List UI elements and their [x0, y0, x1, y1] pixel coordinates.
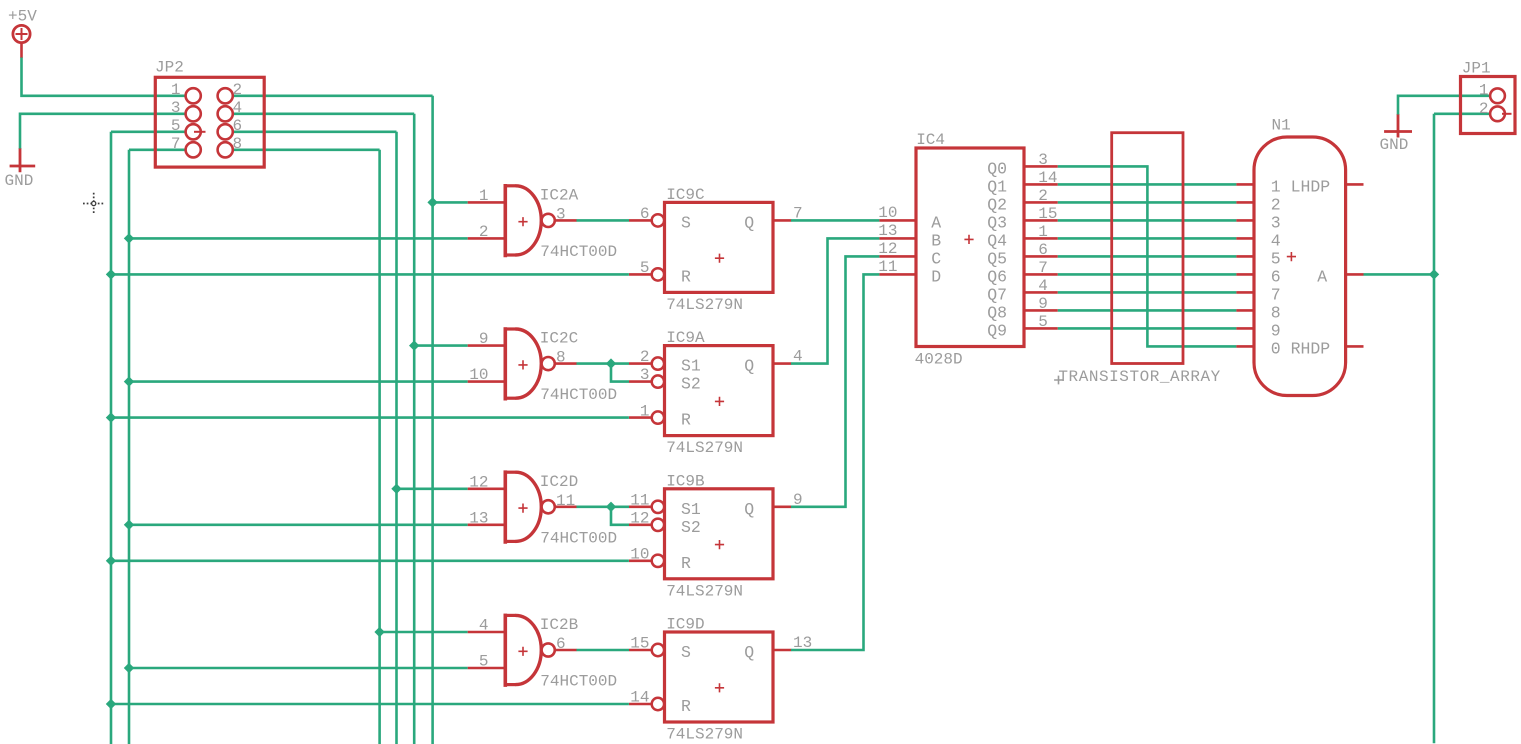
svg-text:0 RHDP: 0 RHDP — [1271, 339, 1331, 358]
svg-text:74HCT00D: 74HCT00D — [540, 243, 617, 261]
svg-text:S: S — [681, 213, 691, 232]
svg-text:2: 2 — [479, 223, 489, 241]
pin stub 8 — [1236, 309, 1254, 312]
wire JP2 pin3 to GND — [20, 114, 186, 149]
wire vertical net at x=1434 — [1433, 114, 1436, 744]
svg-text:74LS279N: 74LS279N — [666, 726, 743, 744]
junction — [124, 233, 134, 243]
svg-text:C: C — [931, 249, 941, 268]
ground GND (left) — [5, 148, 36, 190]
pin stub R — [629, 703, 652, 706]
wire to IC2A pin 1 — [433, 201, 468, 204]
pin stub in1 — [468, 631, 505, 634]
svg-text:Q8: Q8 — [987, 304, 1007, 323]
wire IC4 Q7 to N1 pin 7 — [1058, 291, 1237, 294]
svg-text:Q7: Q7 — [987, 286, 1007, 305]
svg-text:TRANSISTOR_ARRAY: TRANSISTOR_ARRAY — [1058, 368, 1220, 386]
display N1 — [1236, 117, 1363, 396]
pin stub Q0 — [1024, 165, 1058, 168]
svg-text:1: 1 — [171, 81, 181, 99]
svg-text:Q3: Q3 — [987, 214, 1007, 233]
svg-text:6: 6 — [1038, 241, 1048, 259]
svg-text:12: 12 — [469, 473, 488, 491]
junction — [106, 699, 116, 709]
wire to IC9B R pin — [111, 559, 629, 562]
pin stub C — [879, 255, 916, 258]
wire IC4 Q0 to N1 pin 0 — [1058, 166, 1237, 346]
svg-text:Q1: Q1 — [987, 178, 1007, 197]
pin stub 1 — [1236, 183, 1254, 186]
svg-text:IC9B: IC9B — [666, 472, 704, 490]
svg-text:A: A — [1317, 267, 1327, 286]
svg-text:4028D: 4028D — [915, 350, 963, 368]
svg-text:Q0: Q0 — [987, 160, 1007, 179]
wire vertical net at x=111 — [110, 132, 113, 744]
svg-text:8: 8 — [556, 349, 566, 367]
pin stub R — [629, 416, 652, 419]
connector JP2 — [155, 58, 264, 167]
pin stub out — [555, 649, 577, 652]
svg-text:9: 9 — [1038, 295, 1048, 313]
svg-text:IC9C: IC9C — [666, 186, 704, 204]
wire IC9C Q to IC4 A — [791, 219, 879, 222]
svg-text:1: 1 — [1038, 223, 1048, 241]
svg-text:S2: S2 — [681, 518, 701, 537]
svg-text:IC2B: IC2B — [540, 616, 578, 634]
svg-text:7: 7 — [1038, 259, 1048, 277]
wire vertical net at x=396 — [395, 132, 398, 744]
pin stub in1 — [468, 201, 505, 204]
svg-text:1: 1 — [640, 402, 650, 420]
wire IC4 Q2 to N1 pin 2 — [1058, 201, 1237, 204]
junction — [106, 412, 116, 422]
svg-text:74HCT00D: 74HCT00D — [540, 529, 617, 547]
wire IC9D Q to IC4 D — [791, 274, 879, 650]
svg-text:15: 15 — [1038, 205, 1057, 223]
svg-text:4: 4 — [1038, 277, 1048, 295]
pin stub B — [879, 237, 916, 240]
wire IC4 Q5 to N1 pin 5 — [1058, 255, 1237, 258]
junction — [374, 627, 384, 637]
pin stub S — [629, 362, 652, 365]
wire JP2 pin2 right — [233, 95, 433, 98]
svg-text:+5V: +5V — [8, 8, 37, 26]
svg-text:11: 11 — [630, 491, 649, 509]
transistor array block — [1054, 133, 1221, 387]
wire branch to S2 — [611, 507, 629, 525]
svg-text:12: 12 — [630, 509, 649, 527]
svg-text:IC2C: IC2C — [540, 330, 578, 348]
wire IC4 Q4 to N1 pin 4 — [1058, 237, 1237, 240]
svg-text:10: 10 — [630, 546, 649, 564]
NAND gate IC2D 74HCT00D — [468, 470, 617, 547]
pin stub 0 — [1236, 345, 1254, 348]
junction — [106, 556, 116, 566]
junction — [606, 358, 616, 368]
NAND gate IC2C 74HCT00D — [468, 327, 617, 404]
pin stub out — [555, 219, 577, 222]
wire IC4 Q6 to N1 pin 6 — [1058, 273, 1237, 276]
svg-text:B: B — [931, 231, 941, 250]
wire +5V to JP2 pin1 — [22, 58, 186, 96]
svg-text:JP2: JP2 — [155, 58, 184, 76]
wire to IC2B pin 5 — [129, 667, 468, 670]
svg-text:6: 6 — [233, 117, 243, 135]
svg-text:74HCT00D: 74HCT00D — [540, 386, 617, 404]
wire to IC2C pin 10 — [129, 380, 468, 383]
wire vertical net at x=129 — [128, 150, 131, 744]
wire JP2 pin6 right — [233, 131, 397, 134]
junction — [427, 197, 437, 207]
svg-text:8: 8 — [1271, 303, 1281, 322]
wire to IC2C pin 9 — [414, 344, 468, 347]
wire to IC9A R pin — [111, 416, 629, 419]
pin stub 6 — [1236, 273, 1254, 276]
pin stub in2 — [468, 523, 505, 526]
svg-text:S2: S2 — [681, 375, 701, 394]
svg-text:74HCT00D: 74HCT00D — [540, 673, 617, 691]
pin stub R — [629, 273, 652, 276]
wire JP1 pin1 to GND — [1398, 96, 1490, 115]
junction — [606, 502, 616, 512]
svg-text:15: 15 — [630, 635, 649, 653]
wire vertical net at x=432 — [431, 96, 434, 744]
svg-text:S1: S1 — [681, 357, 701, 376]
svg-text:7: 7 — [1271, 285, 1281, 304]
svg-text:S1: S1 — [681, 500, 701, 519]
svg-text:IC9A: IC9A — [666, 329, 705, 347]
svg-text:74LS279N: 74LS279N — [666, 439, 743, 457]
svg-text:JP1: JP1 — [1462, 59, 1491, 77]
svg-text:R: R — [681, 554, 691, 573]
svg-text:14: 14 — [630, 689, 649, 707]
junction — [124, 376, 134, 386]
svg-text:IC4: IC4 — [916, 131, 945, 149]
connector JP1 — [1461, 59, 1516, 133]
wire IC9A Q to IC4 B — [791, 238, 879, 363]
svg-text:R: R — [681, 411, 691, 430]
wire IC4 Q8 to N1 pin 8 — [1058, 309, 1237, 312]
svg-text:A: A — [931, 213, 941, 232]
SR latch IC9A 74LS279N — [629, 329, 803, 457]
pin stub out — [555, 362, 577, 365]
wire to IC2D pin 13 — [129, 523, 468, 526]
pin stub S2 — [629, 380, 652, 383]
svg-text:3: 3 — [1038, 151, 1048, 169]
wire to IC9D R pin — [111, 703, 629, 706]
pin stub 9 — [1236, 327, 1254, 330]
svg-text:Q5: Q5 — [987, 250, 1007, 269]
svg-text:R: R — [681, 267, 691, 286]
wire to IC2D pin 12 — [397, 487, 468, 490]
pin stub 2 — [1236, 201, 1254, 204]
svg-text:4: 4 — [233, 99, 243, 117]
svg-text:5: 5 — [640, 259, 650, 277]
pin stub in1 — [468, 487, 505, 490]
pin stub S — [629, 219, 652, 222]
junction — [124, 520, 134, 530]
wire vertical net at x=414 — [413, 114, 416, 744]
svg-text:74LS279N: 74LS279N — [666, 582, 743, 600]
wire to IC2B pin 4 — [380, 631, 468, 634]
junction at N1 A net — [1429, 269, 1439, 279]
svg-text:2: 2 — [233, 81, 243, 99]
svg-text:D: D — [931, 267, 941, 286]
svg-text:IC9D: IC9D — [666, 616, 704, 634]
svg-text:3: 3 — [1271, 213, 1281, 232]
pin stub in2 — [468, 237, 505, 240]
pin stub S — [629, 505, 652, 508]
pin stub Q — [773, 362, 791, 365]
pin stub RHDP out — [1346, 345, 1364, 348]
pin stub Q7 — [1024, 291, 1058, 294]
pin stub out — [555, 505, 577, 508]
wire IC2D out to S1 — [576, 505, 629, 508]
SR latch IC9C 74LS279N — [629, 186, 803, 314]
wire to IC9C R pin — [111, 273, 629, 276]
svg-text:5: 5 — [1271, 249, 1281, 268]
wire IC9B Q to IC4 C — [791, 256, 879, 506]
pin stub Q — [773, 505, 791, 508]
wire JP1 pin2 — [1434, 113, 1490, 116]
svg-text:1 LHDP: 1 LHDP — [1271, 177, 1331, 196]
pin stub D — [879, 273, 916, 276]
pin stub Q — [773, 219, 791, 222]
pin stub LHDP out — [1346, 183, 1364, 186]
pin stub in2 — [468, 667, 505, 670]
SR latch IC9B 74LS279N — [629, 472, 803, 600]
NAND gate IC2B 74HCT00D — [468, 614, 617, 691]
wire JP2 pin5 left — [111, 131, 186, 134]
wire to IC2A pin 2 — [129, 237, 468, 240]
svg-text:GND: GND — [1380, 136, 1409, 154]
svg-text:IC2A: IC2A — [540, 186, 579, 204]
junction — [391, 484, 401, 494]
svg-text:6: 6 — [640, 205, 650, 223]
pin stub 4 — [1236, 237, 1254, 240]
svg-text:2: 2 — [640, 348, 650, 366]
pin stub Q1 — [1024, 183, 1058, 186]
ground GND (right, near JP1) — [1380, 114, 1413, 154]
+5V supply symbol — [8, 8, 37, 59]
wire JP2 pin7 left — [129, 149, 186, 152]
svg-text:IC2D: IC2D — [540, 473, 578, 491]
svg-text:5: 5 — [171, 117, 181, 135]
pin stub R — [629, 559, 652, 562]
pin stub 5 — [1236, 255, 1254, 258]
svg-text:R: R — [681, 697, 691, 716]
svg-text:Q6: Q6 — [987, 268, 1007, 287]
svg-text:14: 14 — [1038, 169, 1057, 187]
pin stub Q3 — [1024, 219, 1058, 222]
cursor crosshair — [83, 193, 105, 214]
svg-text:Q: Q — [744, 357, 754, 376]
wire vertical net at x=380 — [378, 150, 381, 744]
pin stub Q6 — [1024, 273, 1058, 276]
svg-text:11: 11 — [878, 258, 897, 276]
pin stub in1 — [468, 344, 505, 347]
pin stub Q8 — [1024, 309, 1058, 312]
wire N1 A out — [1364, 273, 1435, 276]
SR latch IC9D 74LS279N — [629, 616, 812, 744]
svg-text:10: 10 — [469, 366, 488, 384]
svg-text:3: 3 — [556, 205, 566, 223]
pin stub Q4 — [1024, 237, 1058, 240]
wire IC4 Q9 to N1 pin 9 — [1058, 327, 1237, 330]
pin stub Q2 — [1024, 201, 1058, 204]
svg-text:12: 12 — [878, 240, 897, 258]
wire branch to S2 — [611, 364, 629, 382]
pin stub Q9 — [1024, 327, 1058, 330]
svg-text:3: 3 — [171, 99, 181, 117]
svg-text:2: 2 — [1038, 187, 1048, 205]
svg-text:13: 13 — [878, 222, 897, 240]
svg-text:10: 10 — [878, 204, 897, 222]
svg-text:4: 4 — [479, 617, 489, 635]
svg-text:N1: N1 — [1272, 117, 1291, 135]
BCD decoder IC4 4028D — [878, 131, 1058, 368]
svg-text:5: 5 — [1038, 313, 1048, 331]
pin stub A — [879, 219, 916, 222]
svg-text:Q4: Q4 — [987, 232, 1007, 251]
svg-text:1: 1 — [479, 187, 489, 205]
svg-text:2: 2 — [1271, 195, 1281, 214]
svg-text:3: 3 — [640, 366, 650, 384]
pin stub Q — [773, 649, 791, 652]
svg-text:4: 4 — [1271, 231, 1281, 250]
svg-text:6: 6 — [1271, 267, 1281, 286]
svg-text:2: 2 — [1479, 100, 1489, 118]
svg-text:Q: Q — [744, 643, 754, 662]
svg-text:1: 1 — [1479, 81, 1489, 99]
junction — [409, 340, 419, 350]
svg-text:Q: Q — [744, 500, 754, 519]
pin stub 7 — [1236, 291, 1254, 294]
svg-text:8: 8 — [233, 135, 243, 153]
svg-text:11: 11 — [556, 492, 575, 510]
junction — [124, 663, 134, 673]
wire IC4 Q1 to N1 pin 1 — [1058, 183, 1237, 186]
pin stub in2 — [468, 380, 505, 383]
wire IC2A out to S — [576, 219, 629, 222]
svg-text:9: 9 — [1271, 321, 1281, 340]
svg-text:GND: GND — [5, 172, 34, 190]
svg-text:74LS279N: 74LS279N — [666, 296, 743, 314]
pin stub S2 — [629, 523, 652, 526]
svg-text:6: 6 — [556, 635, 566, 653]
pin stub S — [629, 649, 652, 652]
wire IC2C out to S1 — [576, 362, 629, 365]
svg-text:5: 5 — [479, 653, 489, 671]
wire JP2 pin8 right — [233, 149, 380, 152]
svg-text:13: 13 — [469, 509, 488, 527]
svg-text:Q2: Q2 — [987, 196, 1007, 215]
pin stub 3 — [1236, 219, 1254, 222]
wire JP2 pin4 right — [233, 113, 415, 116]
NAND gate IC2A 74HCT00D — [468, 184, 617, 261]
svg-text:Q: Q — [744, 213, 754, 232]
junction — [106, 269, 116, 279]
wire IC2B out to S — [576, 649, 629, 652]
wire IC4 Q3 to N1 pin 3 — [1058, 219, 1237, 222]
pin stub Q5 — [1024, 255, 1058, 258]
svg-text:Q9: Q9 — [987, 322, 1007, 341]
svg-text:S: S — [681, 643, 691, 662]
svg-text:7: 7 — [171, 135, 181, 153]
svg-text:9: 9 — [479, 330, 489, 348]
pin stub A out — [1346, 273, 1364, 276]
